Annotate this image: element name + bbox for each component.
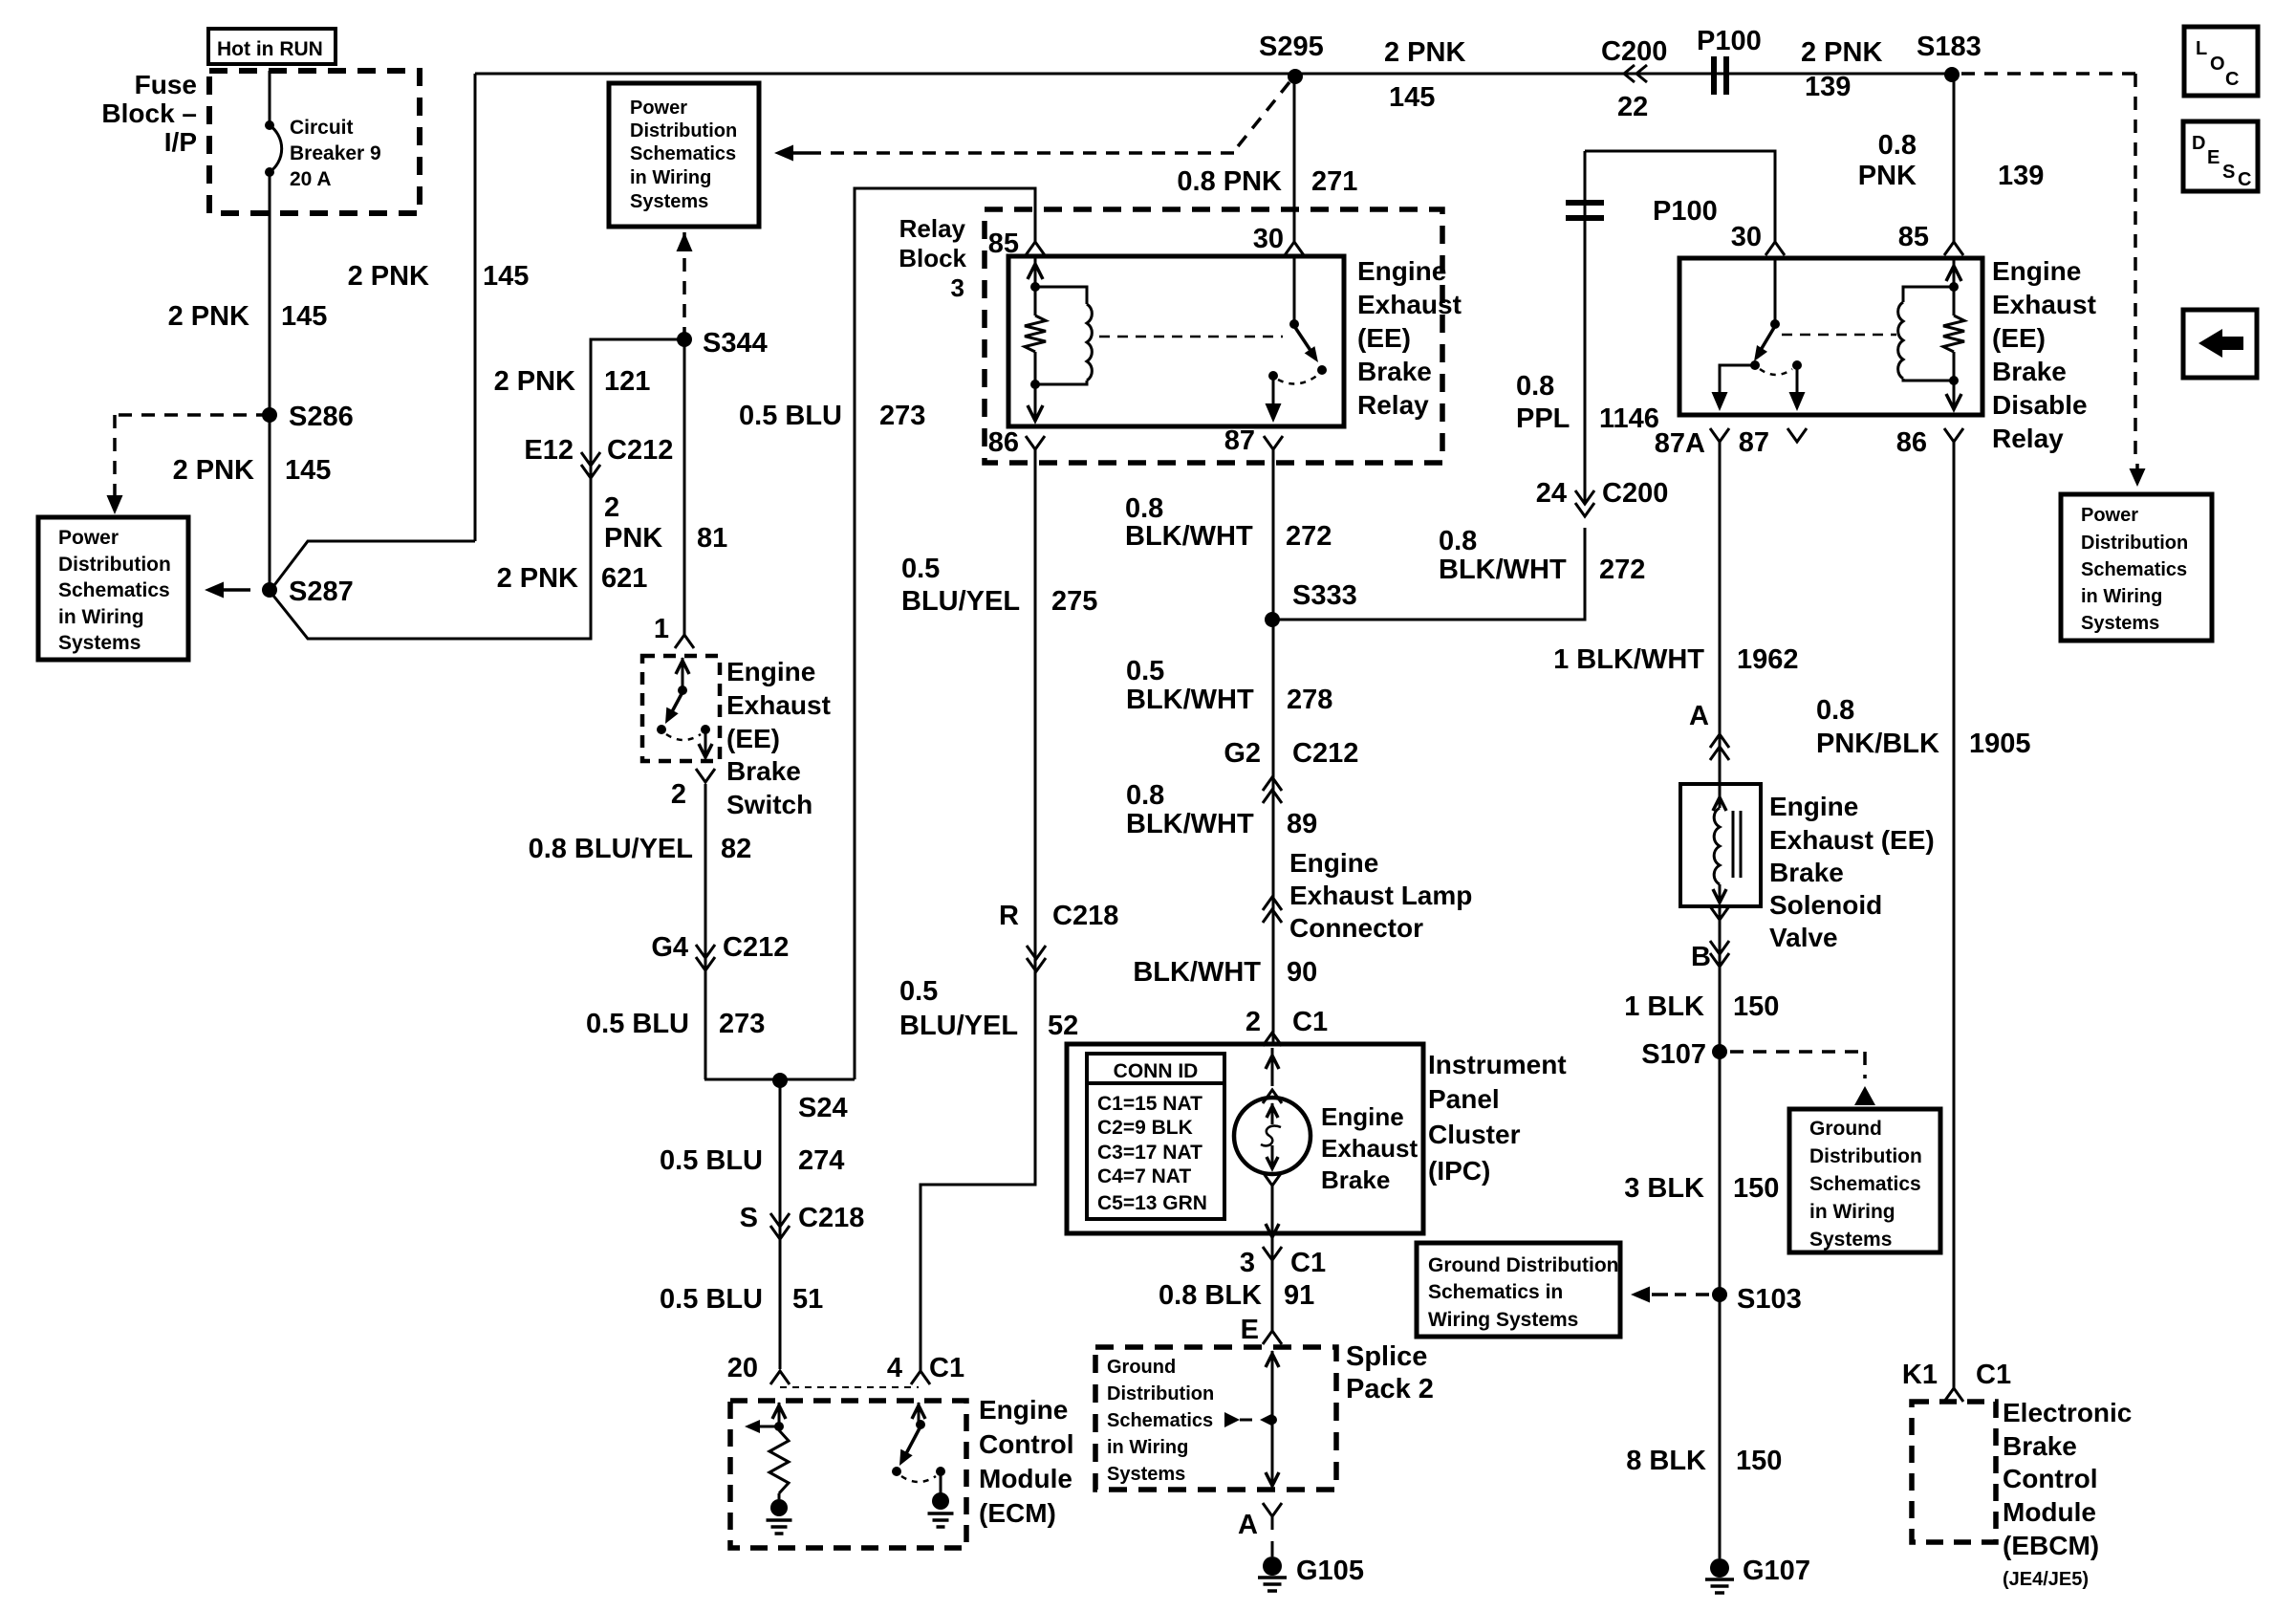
- svg-text:in Wiring: in Wiring: [1809, 1201, 1895, 1223]
- svg-text:Exhaust: Exhaust: [1321, 1134, 1418, 1163]
- svg-text:C1: C1: [1976, 1360, 2011, 1390]
- svg-text:S: S: [2222, 162, 2235, 183]
- svg-text:(JE4/JE5): (JE4/JE5): [2003, 1569, 2089, 1590]
- svg-text:150: 150: [1733, 1173, 1779, 1204]
- svg-text:20: 20: [727, 1353, 758, 1383]
- svg-text:(EE): (EE): [1992, 323, 2046, 353]
- svg-text:S344: S344: [703, 328, 768, 359]
- svg-text:0.8: 0.8: [1125, 493, 1163, 524]
- svg-text:0.8: 0.8: [1816, 695, 1854, 726]
- svg-text:20 A: 20 A: [290, 168, 332, 190]
- svg-text:89: 89: [1287, 809, 1317, 839]
- svg-text:Ground Distribution: Ground Distribution: [1428, 1254, 1618, 1276]
- svg-text:91: 91: [1284, 1280, 1314, 1311]
- svg-text:Brake: Brake: [1992, 357, 2067, 386]
- svg-text:Schematics: Schematics: [1107, 1410, 1213, 1431]
- svg-text:82: 82: [721, 834, 751, 864]
- svg-text:3 BLK: 3 BLK: [1624, 1173, 1704, 1204]
- svg-text:Wiring Systems: Wiring Systems: [1428, 1309, 1578, 1331]
- svg-text:Brake: Brake: [726, 756, 801, 786]
- svg-text:Systems: Systems: [2081, 613, 2159, 634]
- svg-text:2: 2: [1245, 1007, 1261, 1037]
- svg-text:85: 85: [1898, 222, 1929, 252]
- svg-text:Power: Power: [2081, 505, 2138, 526]
- svg-text:272: 272: [1286, 521, 1332, 552]
- svg-text:C2=9 BLK: C2=9 BLK: [1097, 1117, 1193, 1139]
- svg-text:Schematics: Schematics: [58, 579, 170, 601]
- svg-text:C1: C1: [1290, 1248, 1326, 1278]
- svg-text:Exhaust (EE): Exhaust (EE): [1769, 825, 1935, 855]
- svg-text:R: R: [999, 901, 1019, 931]
- svg-text:(IPC): (IPC): [1428, 1156, 1490, 1186]
- svg-text:Schematics in: Schematics in: [1428, 1281, 1563, 1303]
- svg-text:Electronic: Electronic: [2003, 1398, 2132, 1427]
- svg-text:E12: E12: [524, 435, 574, 466]
- svg-text:Block: Block: [899, 244, 966, 272]
- svg-text:30: 30: [1731, 222, 1762, 252]
- svg-text:Engine: Engine: [1769, 792, 1858, 821]
- svg-text:in Wiring: in Wiring: [1107, 1437, 1188, 1458]
- svg-text:Control: Control: [2003, 1464, 2098, 1493]
- svg-text:D: D: [2192, 133, 2205, 154]
- svg-text:0.8: 0.8: [1439, 526, 1477, 556]
- svg-text:8 BLK: 8 BLK: [1626, 1446, 1706, 1476]
- svg-text:PPL: PPL: [1516, 403, 1570, 434]
- svg-text:0.5 BLU: 0.5 BLU: [660, 1145, 763, 1176]
- svg-text:BLK/WHT: BLK/WHT: [1439, 555, 1567, 585]
- svg-text:O: O: [2210, 54, 2225, 75]
- svg-text:Exhaust: Exhaust: [726, 690, 831, 720]
- svg-text:A: A: [1689, 701, 1709, 731]
- svg-text:0.8: 0.8: [1878, 130, 1917, 161]
- svg-text:Distribution: Distribution: [1809, 1145, 1922, 1167]
- svg-text:C1: C1: [1292, 1007, 1328, 1037]
- svg-text:Power: Power: [58, 527, 119, 549]
- svg-text:1: 1: [654, 614, 669, 644]
- svg-text:Systems: Systems: [1809, 1229, 1892, 1251]
- svg-text:(EBCM): (EBCM): [2003, 1531, 2099, 1560]
- svg-text:in Wiring: in Wiring: [630, 167, 711, 188]
- svg-text:271: 271: [1311, 166, 1357, 197]
- svg-text:2 PNK: 2 PNK: [173, 455, 254, 486]
- svg-text:81: 81: [697, 523, 727, 554]
- svg-text:Distribution: Distribution: [2081, 533, 2188, 554]
- svg-text:Exhaust: Exhaust: [1992, 290, 2096, 319]
- svg-text:C200: C200: [1602, 478, 1668, 509]
- svg-text:275: 275: [1051, 586, 1097, 617]
- svg-text:Brake: Brake: [2003, 1431, 2077, 1461]
- svg-text:Module: Module: [979, 1464, 1072, 1493]
- svg-text:121: 121: [604, 366, 650, 397]
- svg-text:Engine: Engine: [726, 657, 815, 686]
- svg-text:4: 4: [887, 1353, 902, 1383]
- svg-text:Systems: Systems: [1107, 1464, 1185, 1485]
- svg-text:85: 85: [988, 229, 1019, 259]
- svg-text:2 PNK: 2 PNK: [494, 366, 575, 397]
- svg-text:G2: G2: [1224, 738, 1261, 769]
- svg-text:C200: C200: [1601, 36, 1667, 67]
- svg-text:139: 139: [1998, 161, 2044, 191]
- svg-text:2 PNK: 2 PNK: [1801, 37, 1882, 68]
- svg-text:C212: C212: [607, 435, 673, 466]
- svg-text:Power: Power: [630, 98, 687, 119]
- svg-text:Pack 2: Pack 2: [1346, 1374, 1434, 1404]
- svg-text:273: 273: [879, 401, 925, 431]
- svg-text:145: 145: [1389, 82, 1435, 113]
- svg-text:K1: K1: [1902, 1360, 1938, 1390]
- svg-text:Engine: Engine: [979, 1395, 1068, 1425]
- svg-text:Schematics: Schematics: [1809, 1173, 1921, 1195]
- svg-text:90: 90: [1287, 957, 1317, 988]
- svg-text:C1=15 NAT: C1=15 NAT: [1097, 1093, 1202, 1115]
- svg-text:S295: S295: [1259, 32, 1324, 62]
- svg-text:Distribution: Distribution: [1107, 1383, 1214, 1404]
- svg-text:Hot in RUN: Hot in RUN: [217, 38, 323, 60]
- svg-text:Systems: Systems: [58, 632, 141, 654]
- svg-text:150: 150: [1736, 1446, 1782, 1476]
- svg-text:Schematics: Schematics: [630, 143, 736, 164]
- svg-text:Exhaust: Exhaust: [1357, 290, 1462, 319]
- svg-text:0.5: 0.5: [901, 554, 940, 584]
- svg-text:(EE): (EE): [726, 724, 780, 753]
- svg-text:86: 86: [1896, 427, 1927, 458]
- svg-text:G4: G4: [651, 932, 688, 963]
- svg-text:Valve: Valve: [1769, 923, 1838, 952]
- svg-text:Relay: Relay: [1357, 390, 1429, 420]
- svg-text:CONN ID: CONN ID: [1114, 1060, 1199, 1082]
- svg-text:BLK/WHT: BLK/WHT: [1133, 957, 1261, 988]
- svg-text:0.5 BLU: 0.5 BLU: [660, 1284, 763, 1315]
- svg-text:(EE): (EE): [1357, 323, 1411, 353]
- svg-text:B: B: [1691, 942, 1711, 972]
- svg-text:C4=7 NAT: C4=7 NAT: [1097, 1165, 1191, 1187]
- svg-text:C218: C218: [798, 1203, 864, 1233]
- svg-text:Relay: Relay: [1992, 424, 2064, 453]
- svg-text:P100: P100: [1653, 196, 1718, 227]
- svg-text:Control: Control: [979, 1429, 1074, 1459]
- svg-text:L: L: [2196, 38, 2207, 59]
- svg-text:C1: C1: [929, 1353, 964, 1383]
- svg-text:Brake: Brake: [1769, 858, 1844, 887]
- svg-text:145: 145: [281, 301, 327, 332]
- svg-text:2 PNK: 2 PNK: [1384, 37, 1465, 68]
- svg-text:C212: C212: [1292, 738, 1358, 769]
- svg-text:BLK/WHT: BLK/WHT: [1126, 685, 1254, 715]
- svg-text:0.8: 0.8: [1516, 371, 1554, 402]
- svg-text:273: 273: [719, 1009, 765, 1039]
- svg-text:0.8 BLU/YEL: 0.8 BLU/YEL: [529, 834, 693, 864]
- svg-text:Systems: Systems: [630, 191, 708, 212]
- svg-text:272: 272: [1599, 555, 1645, 585]
- svg-text:1 BLK: 1 BLK: [1624, 991, 1704, 1022]
- svg-text:A: A: [1238, 1510, 1258, 1540]
- svg-text:Relay: Relay: [899, 214, 966, 243]
- svg-text:Switch: Switch: [726, 790, 812, 819]
- svg-text:3: 3: [951, 273, 964, 302]
- svg-text:S286: S286: [289, 402, 354, 432]
- svg-text:in Wiring: in Wiring: [58, 606, 144, 628]
- svg-text:Splice: Splice: [1346, 1341, 1427, 1372]
- svg-text:C: C: [2238, 169, 2251, 190]
- svg-text:3: 3: [1240, 1248, 1255, 1278]
- svg-text:0.8: 0.8: [1126, 780, 1164, 811]
- svg-text:C218: C218: [1052, 901, 1118, 931]
- svg-text:I/P: I/P: [164, 127, 197, 157]
- svg-text:C5=13 GRN: C5=13 GRN: [1097, 1192, 1207, 1214]
- svg-text:1905: 1905: [1969, 729, 2031, 759]
- svg-text:E: E: [1241, 1315, 1259, 1345]
- svg-text:(ECM): (ECM): [979, 1498, 1056, 1528]
- svg-text:C3=17 NAT: C3=17 NAT: [1097, 1142, 1202, 1164]
- svg-text:PNK/BLK: PNK/BLK: [1816, 729, 1939, 759]
- svg-text:1 BLK/WHT: 1 BLK/WHT: [1553, 644, 1704, 675]
- svg-text:S287: S287: [289, 577, 354, 607]
- svg-text:2: 2: [604, 492, 619, 523]
- svg-text:2 PNK: 2 PNK: [348, 261, 429, 292]
- svg-text:Brake: Brake: [1357, 357, 1432, 386]
- svg-text:Module: Module: [2003, 1497, 2096, 1527]
- svg-text:0.8 PNK: 0.8 PNK: [1177, 166, 1282, 197]
- svg-text:1962: 1962: [1737, 644, 1799, 675]
- svg-text:Engine: Engine: [1321, 1102, 1404, 1131]
- svg-text:Connector: Connector: [1289, 913, 1423, 943]
- svg-text:150: 150: [1733, 991, 1779, 1022]
- svg-text:Schematics: Schematics: [2081, 559, 2187, 580]
- svg-text:G107: G107: [1743, 1556, 1810, 1586]
- svg-text:S24: S24: [798, 1093, 848, 1123]
- svg-text:2 PNK: 2 PNK: [497, 563, 578, 594]
- svg-text:86: 86: [988, 427, 1019, 458]
- svg-text:BLK/WHT: BLK/WHT: [1126, 809, 1254, 839]
- svg-text:BLK/WHT: BLK/WHT: [1125, 521, 1253, 552]
- svg-text:Panel: Panel: [1428, 1084, 1500, 1114]
- svg-text:BLU/YEL: BLU/YEL: [901, 586, 1020, 617]
- svg-text:P100: P100: [1697, 26, 1762, 56]
- svg-text:1146: 1146: [1599, 403, 1659, 434]
- svg-text:0.5 BLU: 0.5 BLU: [586, 1009, 689, 1039]
- svg-text:Engine: Engine: [1357, 256, 1446, 286]
- svg-text:Cluster: Cluster: [1428, 1120, 1521, 1149]
- svg-text:S103: S103: [1737, 1284, 1802, 1315]
- svg-text:0.5: 0.5: [899, 976, 938, 1007]
- svg-text:E: E: [2207, 147, 2220, 168]
- svg-text:Circuit: Circuit: [290, 117, 354, 139]
- svg-text:0.5: 0.5: [1126, 656, 1164, 686]
- svg-text:S: S: [740, 1203, 758, 1233]
- svg-text:G105: G105: [1296, 1556, 1364, 1586]
- svg-text:C212: C212: [723, 932, 789, 963]
- svg-text:in Wiring: in Wiring: [2081, 586, 2162, 607]
- svg-text:2: 2: [671, 779, 686, 810]
- svg-text:621: 621: [601, 563, 647, 594]
- svg-text:278: 278: [1287, 685, 1332, 715]
- svg-text:Brake: Brake: [1321, 1165, 1390, 1194]
- svg-text:87: 87: [1739, 427, 1769, 458]
- svg-text:274: 274: [798, 1145, 844, 1176]
- svg-text:24: 24: [1536, 478, 1567, 509]
- svg-text:87: 87: [1224, 425, 1255, 456]
- svg-text:Breaker 9: Breaker 9: [290, 142, 381, 164]
- svg-text:Distribution: Distribution: [630, 120, 737, 142]
- svg-text:0.8 BLK: 0.8 BLK: [1159, 1280, 1262, 1311]
- svg-text:Disable: Disable: [1992, 390, 2088, 420]
- svg-text:22: 22: [1617, 92, 1648, 122]
- svg-text:S333: S333: [1292, 580, 1357, 611]
- svg-text:Engine: Engine: [1992, 256, 2081, 286]
- svg-text:Ground: Ground: [1107, 1357, 1176, 1378]
- svg-text:Distribution: Distribution: [58, 554, 171, 576]
- svg-text:Ground: Ground: [1809, 1118, 1882, 1140]
- svg-text:Exhaust Lamp: Exhaust Lamp: [1289, 881, 1472, 910]
- svg-text:52: 52: [1048, 1011, 1078, 1041]
- svg-text:Engine: Engine: [1289, 848, 1378, 878]
- svg-text:30: 30: [1253, 224, 1284, 254]
- svg-text:S107: S107: [1641, 1039, 1706, 1070]
- svg-text:87A: 87A: [1655, 428, 1705, 459]
- svg-text:2 PNK: 2 PNK: [168, 301, 249, 332]
- svg-text:139: 139: [1805, 72, 1851, 102]
- svg-text:Instrument: Instrument: [1428, 1050, 1567, 1079]
- svg-text:PNK: PNK: [604, 523, 662, 554]
- svg-text:S183: S183: [1917, 32, 1982, 62]
- svg-text:Fuse: Fuse: [135, 70, 197, 99]
- svg-text:145: 145: [483, 261, 529, 292]
- svg-text:PNK: PNK: [1858, 161, 1917, 191]
- svg-text:Block –: Block –: [101, 98, 197, 128]
- svg-text:0.5 BLU: 0.5 BLU: [739, 401, 842, 431]
- svg-text:C: C: [2225, 69, 2239, 90]
- svg-text:Solenoid: Solenoid: [1769, 890, 1882, 920]
- svg-text:BLU/YEL: BLU/YEL: [899, 1011, 1018, 1041]
- svg-text:51: 51: [792, 1284, 823, 1315]
- svg-text:145: 145: [285, 455, 331, 486]
